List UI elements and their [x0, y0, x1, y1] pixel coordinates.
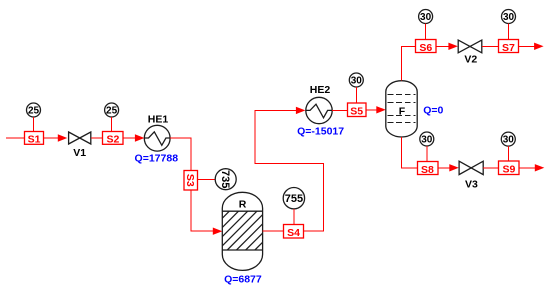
wire S9 outlet with arrow [519, 164, 544, 171]
valve V2 [458, 40, 482, 66]
wire V2 to S7 [482, 45, 498, 47]
svg-text:25: 25 [106, 105, 118, 116]
svg-text:R: R [239, 199, 247, 211]
svg-text:30: 30 [503, 12, 515, 23]
svg-text:30: 30 [351, 75, 363, 86]
svg-text:S3: S3 [184, 174, 196, 187]
stream S4 [284, 225, 304, 240]
svg-text:HE1: HE1 [148, 114, 169, 126]
wire S4 to HE2 with arrow [255, 107, 323, 232]
stream S6 [416, 40, 437, 55]
wire R to S4 [263, 230, 284, 232]
wire F bottom to S8 [402, 137, 418, 168]
wire indicator to S8 [426, 146, 428, 161]
svg-text:S6: S6 [419, 42, 432, 54]
wire V3 to S9 [483, 167, 499, 169]
svg-text:S8: S8 [421, 164, 434, 176]
heat exchanger HE1 [144, 114, 170, 152]
wire indicator to S9 [507, 146, 509, 161]
valve V3 [459, 161, 483, 190]
valve V1 [69, 132, 91, 159]
wire indicator to S4 [293, 209, 295, 225]
stream S8 [418, 162, 439, 176]
wire S6 to V2 with arrow [436, 43, 458, 50]
svg-text:V1: V1 [73, 147, 86, 159]
heat exchanger HE2 [306, 84, 332, 124]
wire S8 to V3 with arrow [438, 164, 459, 171]
stream S7 [499, 40, 519, 55]
stream S1 [25, 132, 44, 146]
svg-text:S5: S5 [350, 106, 363, 118]
node temperature indicator 25 (above S2) [105, 103, 119, 117]
stream S2 [103, 132, 124, 146]
svg-text:S2: S2 [106, 134, 119, 146]
stream S3 [184, 171, 198, 191]
wire indicator to S6 [425, 24, 427, 40]
wire S3 to indicator 735 [197, 179, 215, 181]
wire V1 to S2 [91, 137, 103, 139]
svg-text:HE2: HE2 [310, 84, 331, 96]
svg-text:25: 25 [28, 105, 40, 116]
svg-text:30: 30 [503, 135, 515, 146]
wire F top to S6 [402, 46, 416, 80]
svg-text:V3: V3 [465, 179, 478, 191]
svg-text:Q=0: Q=0 [423, 104, 443, 116]
stream S5 [348, 103, 367, 118]
wire S5 to flash F with arrow [366, 106, 386, 113]
node temperature indicator 30 (above S7) [502, 10, 516, 24]
stream S9 [499, 161, 520, 176]
node temperature indicator 25 (above S1) [27, 103, 41, 117]
node temperature indicator 735 (beside S3) [215, 169, 236, 190]
wire indicator to S2 [111, 117, 113, 132]
node temperature indicator 30 (above S9) [501, 132, 515, 146]
flash drum F [386, 81, 417, 137]
reactor R [191, 192, 294, 270]
node temperature indicator 30 (above S6) [419, 10, 433, 24]
svg-text:Q=6877: Q=6877 [224, 274, 262, 286]
wire S7 outlet with arrow [519, 43, 544, 50]
svg-text:755: 755 [285, 193, 303, 205]
wire HE1 to S3 [170, 138, 191, 170]
wire feed into S1 [6, 137, 25, 139]
svg-text:735: 735 [219, 170, 231, 188]
svg-text:S1: S1 [28, 134, 41, 146]
svg-text:S7: S7 [502, 42, 515, 54]
wire HE2 to S5 [332, 109, 347, 111]
svg-text:30: 30 [420, 12, 432, 23]
svg-text:V2: V2 [464, 54, 477, 66]
wire S1 to V1 with arrow [43, 134, 67, 141]
node temperature indicator 755 (above S4) [283, 188, 304, 209]
wire S3 to reactor R with arrow [191, 190, 223, 235]
svg-text:Q=17788: Q=17788 [135, 153, 179, 165]
wire indicator to S1 [33, 117, 35, 132]
node temperature indicator 30 (above S8) [420, 132, 434, 146]
svg-text:30: 30 [421, 134, 433, 145]
svg-text:Q=-15017: Q=-15017 [297, 125, 344, 137]
wire indicator to S5 [355, 87, 357, 103]
svg-text:S4: S4 [287, 227, 300, 239]
node temperature indicator 30 (above S5) [349, 73, 363, 87]
wire indicator to S7 [508, 24, 510, 40]
wire S2 to HE1 with arrow [123, 134, 144, 141]
svg-text:F: F [399, 105, 406, 117]
svg-text:S9: S9 [503, 164, 516, 176]
